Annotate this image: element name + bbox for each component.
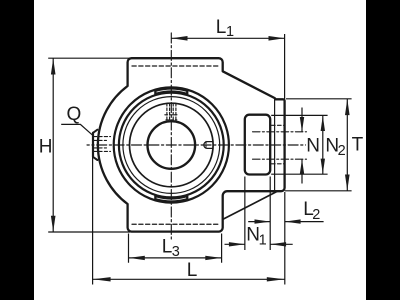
L3 arrows — [129, 256, 145, 260]
svg-text:1: 1 — [259, 232, 267, 248]
right black bar — [366, 0, 400, 300]
rib diagonal bottom — [223, 192, 277, 220]
hidden slot depth dashes right — [272, 125, 284, 164]
L1 arrows — [171, 36, 187, 41]
dimension L2 line with tails — [248, 221, 323, 223]
dimension N2 line — [322, 116, 324, 174]
svg-text:N: N — [306, 135, 320, 156]
svg-text:T: T — [352, 135, 364, 156]
centerline vertical — [170, 33, 172, 239]
hidden slot line bottom (dashed) — [132, 223, 219, 225]
H extension lines — [48, 58, 130, 232]
lube hole (hidden, dashed) — [167, 104, 176, 121]
N1 arrows (outside pointing in) — [229, 242, 245, 246]
dimension L3 line — [129, 257, 222, 259]
svg-text:2: 2 — [312, 207, 320, 223]
svg-text:Q: Q — [67, 104, 82, 125]
left black bar — [0, 0, 34, 300]
svg-text:H: H — [39, 137, 53, 158]
L3 extension lines — [129, 234, 222, 263]
N2 arrows — [321, 116, 325, 131]
hatched contact crescent top — [155, 87, 188, 95]
T-slot rounded rectangle (side wing) — [245, 115, 270, 175]
outer ring OD circle — [119, 93, 224, 198]
hatched contact crescent bottom — [155, 195, 188, 203]
svg-text:L: L — [162, 237, 173, 258]
dimension L line — [93, 278, 285, 280]
L extension lines — [93, 157, 285, 285]
seal circle — [130, 103, 214, 187]
svg-text:L: L — [216, 17, 227, 38]
Q label leader — [61, 124, 92, 135]
svg-text:L: L — [187, 260, 198, 281]
dimension N line with outside arrows — [301, 108, 303, 184]
L2 arrows (outside pointing in) — [255, 219, 271, 223]
N arrows (outside pointing in) — [300, 117, 304, 132]
svg-text:2: 2 — [338, 143, 346, 159]
dimension H line — [52, 58, 54, 231]
svg-text:1: 1 — [226, 24, 234, 40]
grease nipple — [93, 130, 97, 160]
svg-text:3: 3 — [172, 244, 180, 260]
grease nipple hole (dashed) — [94, 137, 111, 152]
rib edge vertical — [274, 100, 276, 191]
H arrows — [51, 58, 56, 74]
N2 extension lines — [271, 115, 327, 174]
T arrows — [345, 99, 350, 115]
rib diagonal top — [223, 71, 274, 98]
hidden slot line top (dashed) — [132, 65, 219, 67]
bearing boss circle — [114, 87, 229, 202]
dimension N1 line with tails — [225, 243, 293, 245]
T extension lines — [285, 99, 352, 191]
slot end center line lower — [253, 158, 307, 160]
bore circle — [148, 121, 196, 169]
arrowheads — [51, 36, 350, 282]
set screw mark right — [204, 142, 213, 149]
L arrows — [93, 277, 111, 281]
dimension L1 line — [171, 37, 284, 39]
slot end center line upper — [253, 131, 307, 133]
dimension T line — [346, 99, 348, 191]
L1 right extension — [284, 34, 286, 99]
centerline horizontal — [87, 144, 306, 146]
outer ring land circle — [123, 97, 220, 194]
N1 extension lines — [245, 177, 270, 251]
housing outline (front view) — [98, 58, 285, 231]
